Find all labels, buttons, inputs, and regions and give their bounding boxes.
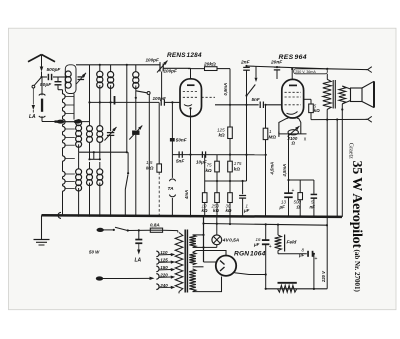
resistor row 10k (204, 155, 206, 181)
svg-text:LA: LA (135, 258, 142, 264)
svg-text:MΩ: MΩ (146, 165, 154, 170)
capacitor 2nF (246, 65, 248, 67)
tube RES964 (282, 79, 304, 118)
tube internals (187, 84, 195, 86)
wire line159 (90, 158, 100, 160)
svg-text:(ab Nr. 27001): (ab Nr. 27001) (353, 250, 361, 293)
wire elco line (289, 179, 314, 181)
potentiometer 2100 ohm (288, 130, 298, 135)
capacitor 100pF series (160, 99, 162, 106)
wire x246 down (AVC) (246, 96, 248, 182)
svg-text:kΩ: kΩ (213, 208, 219, 213)
wire primary bottom down (326, 110, 328, 289)
wire heater W6 (204, 224, 328, 226)
fuse 0,8A (139, 229, 151, 231)
wire W3 right (215, 104, 259, 106)
wire W4 (172, 154, 265, 156)
RES anode lead (304, 98, 311, 100)
resistor 20k (205, 67, 218, 71)
capacitor 50pF (57, 77, 59, 82)
LA antenna output arrow (32, 88, 34, 104)
wire W1b to tube grid (163, 67, 190, 69)
capacitor 50nF block (171, 102, 173, 138)
capacitor 1uF (242, 181, 244, 194)
svg-text:+: + (315, 256, 318, 262)
coil L5b (76, 169, 82, 175)
svg-text:Graetz: Graetz (348, 143, 354, 159)
svg-text:kΩ: kΩ (314, 108, 320, 113)
svg-text:RENS 1284: RENS 1284 (167, 52, 202, 59)
svg-text:500pF: 500pF (47, 67, 62, 73)
svg-text:150: 150 (160, 265, 168, 270)
electrolytic 8uF (278, 253, 307, 255)
svg-text:μF: μF (279, 205, 286, 210)
svg-text:20kΩ: 20kΩ (203, 61, 216, 67)
tube RGN1064 (216, 256, 236, 276)
wire coil A bottom to link (73, 94, 75, 120)
resistor 5k (309, 104, 314, 113)
RES filament legs (279, 118, 288, 134)
mains terminal 2 (96, 277, 102, 280)
wire grid line W3 (90, 101, 160, 103)
speaker (351, 88, 363, 102)
coil L7b lower (97, 169, 103, 175)
svg-text:kΩ: kΩ (206, 168, 213, 173)
svg-text:Ω: Ω (296, 205, 301, 210)
capacitor to LA (138, 230, 140, 239)
wire main chassis bus (42, 215, 343, 217)
resistor 1,5M (158, 102, 160, 163)
svg-text:kΩ: kΩ (202, 208, 208, 213)
svg-text:Feld: Feld (287, 240, 298, 246)
tube cathode lead down (190, 117, 192, 216)
terminal top (368, 67, 372, 73)
wire speaker return to bus (336, 120, 338, 217)
svg-text:4,5mA: 4,5mA (282, 164, 287, 178)
wire pot line (279, 133, 307, 135)
core (332, 80, 334, 109)
wire top supply W2 (247, 66, 328, 69)
jack in antenna lead (41, 77, 43, 95)
svg-text:4,5mA: 4,5mA (270, 162, 275, 176)
bleeder resistor (278, 285, 297, 292)
wire screen feed x230 (229, 69, 231, 127)
box 250V 36mA (294, 69, 328, 74)
svg-text:50 W: 50 W (89, 250, 100, 255)
svg-text:75: 75 (207, 163, 213, 168)
svg-text:+: + (292, 188, 295, 194)
svg-text:μF: μF (298, 253, 305, 258)
band switch (wave range) (136, 91, 147, 93)
svg-text:RGN 1064: RGN 1064 (234, 251, 266, 258)
coil L4 (135, 65, 137, 72)
svg-text:125: 125 (160, 258, 168, 263)
coil L6b lower (87, 169, 93, 175)
transformer secondary HV (189, 252, 196, 264)
tube RENS1284 (180, 79, 202, 117)
switch antenna selector (34, 77, 41, 85)
svg-text:μF: μF (253, 242, 260, 247)
svg-text:4mA: 4mA (184, 190, 189, 200)
antenna coil L1 (65, 65, 76, 94)
pilot lamp 4V 0,5A (216, 216, 218, 235)
resistor 500 ohm (299, 180, 301, 193)
terminal bottom (368, 116, 372, 122)
electrolytic 13uF (288, 180, 290, 193)
svg-text:250 V, 36mA: 250 V, 36mA (295, 70, 316, 74)
svg-text:μF: μF (243, 208, 250, 213)
wire riser x90 (89, 65, 91, 122)
svg-text:nF: nF (310, 205, 316, 210)
svg-text:100pF: 100pF (164, 69, 177, 74)
grid dashes out right (202, 96, 216, 98)
output transformer primary (323, 79, 331, 109)
wire to coil tap (42, 121, 55, 123)
svg-text:LA: LA (29, 114, 36, 120)
svg-text:Ω: Ω (291, 141, 296, 146)
node bus junctions (78, 215, 80, 217)
svg-text:kΩ: kΩ (234, 166, 241, 171)
svg-text:1: 1 (269, 129, 272, 134)
resistor row 250k (216, 181, 218, 193)
wire top left W1a (76, 64, 160, 66)
wire rectifier feed (203, 216, 205, 262)
trimmer 100pF (159, 62, 161, 64)
variable capacitor VC2 (135, 98, 137, 130)
svg-text:35 W Aeropilot: 35 W Aeropilot (349, 161, 364, 249)
variable capacitor VC1 (110, 102, 112, 131)
capacitor 500pF (42, 76, 48, 78)
svg-text:220 V: 220 V (321, 270, 326, 283)
svg-text:MΩ: MΩ (269, 135, 277, 140)
wire speaker bottom line (311, 118, 367, 120)
TA pickup jack (169, 179, 175, 181)
wire W5 (205, 180, 247, 182)
transformer primary (175, 233, 183, 292)
coil L6a upper (89, 122, 91, 126)
svg-text:50nF: 50nF (176, 137, 187, 142)
wire bottom line (266, 288, 328, 290)
svg-text:0,8A: 0,8A (150, 223, 160, 228)
svg-text:1,5: 1,5 (146, 160, 153, 165)
coil L3 (110, 65, 112, 71)
coil L5 (dense) (78, 119, 80, 121)
capacitor 20nF (276, 66, 278, 68)
wiper down (288, 134, 290, 180)
svg-text:100pF: 100pF (153, 96, 166, 101)
coil L2 (99, 65, 101, 71)
svg-text:+: + (269, 244, 272, 250)
switch (tone/cut) (255, 66, 257, 77)
svg-text:0,9mA: 0,9mA (223, 83, 228, 96)
capacitor 5nF coupling (259, 102, 261, 109)
wire anode W1b-right (188, 68, 205, 70)
svg-text:2nF: 2nF (240, 59, 251, 65)
resistor 125k (228, 127, 233, 139)
svg-text:kΩ: kΩ (219, 133, 226, 138)
resistor 175k (228, 161, 233, 172)
svg-text:220: 220 (159, 273, 168, 278)
trimmer capacitor (78, 76, 85, 78)
resistor 75k (216, 155, 218, 162)
wire line152 (79, 151, 127, 153)
resistor 1M (265, 105, 267, 128)
svg-text:kΩ: kΩ (226, 208, 232, 213)
band switch 2 (124, 190, 126, 216)
field coil Feld (277, 225, 279, 235)
svg-text:110: 110 (160, 250, 168, 255)
mains switch (103, 229, 113, 231)
svg-text:240: 240 (159, 283, 168, 288)
RGN leads (225, 275, 227, 278)
transformer secondary heater (189, 235, 196, 248)
antenna (28, 55, 42, 62)
capacitor 5nF in W4 (178, 151, 180, 157)
wire riser x127 (126, 65, 128, 152)
tapped coil contact column (63, 94, 66, 99)
taps (156, 251, 159, 257)
capacitor 10uF in W4 (201, 151, 203, 157)
svg-text:TA: TA (168, 186, 175, 192)
svg-text:10μF: 10μF (196, 160, 207, 165)
resistor row 30k (229, 181, 231, 193)
bus break connector (58, 212, 61, 218)
svg-text:4V 0,5A: 4V 0,5A (222, 237, 240, 243)
svg-text:RES 964: RES 964 (279, 54, 307, 61)
svg-text:5nF: 5nF (176, 159, 184, 164)
core bar (114, 96, 116, 105)
capacitor 5nF bypass (313, 180, 315, 194)
electrolytic 16uF (265, 224, 267, 239)
coil L7a upper (99, 102, 101, 125)
shorting link plugs (57, 120, 64, 123)
svg-text:5nF: 5nF (252, 97, 260, 102)
svg-text:175: 175 (234, 161, 242, 166)
ground (41, 215, 43, 239)
transformer core (184, 230, 186, 293)
svg-text:100pF: 100pF (146, 58, 159, 63)
mains terminal 1 (97, 228, 103, 231)
RES internals (289, 84, 297, 86)
secondary (339, 86, 346, 104)
